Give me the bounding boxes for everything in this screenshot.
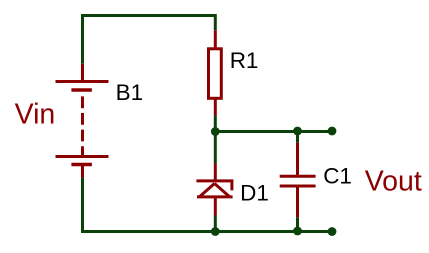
svg-text:C1: C1 [323, 164, 352, 189]
output terminal dot Vout- [328, 227, 337, 236]
battery B1 [56, 64, 109, 178]
svg-text:D1: D1 [240, 180, 269, 205]
junction node B (C1 top) [293, 127, 302, 136]
wire node A to output terminal [215, 130, 332, 133]
junction node C (D1 bottom on rail) [211, 227, 220, 236]
bottom rail wire from battery to output terminal [83, 178, 333, 232]
wire C1 top stub [296, 132, 299, 143]
wire from battery top to R1 top [83, 16, 216, 64]
zener diode D1 [196, 163, 232, 215]
resistor R1 [209, 30, 222, 115]
wire C1 bottom to bottom rail [296, 217, 299, 231]
junction node D (C1 bottom on rail) [293, 227, 302, 236]
junction node A (R1/D1/output) [211, 127, 220, 136]
wire node A down to D1 [214, 132, 217, 164]
svg-text:Vin: Vin [15, 99, 56, 131]
output terminal dot Vout+ [328, 127, 337, 136]
wire R1 bottom to node A [214, 116, 217, 132]
svg-text:B1: B1 [116, 80, 144, 105]
wire D1 bottom to bottom rail [214, 216, 217, 232]
capacitor C1 [280, 143, 316, 217]
svg-text:Vout: Vout [365, 165, 422, 197]
svg-text:R1: R1 [230, 48, 259, 73]
